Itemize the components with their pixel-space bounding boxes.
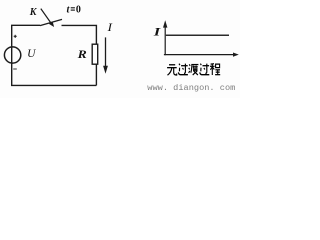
wire bottom segment [12,63,97,86]
svg-text:K: K [29,7,38,18]
graph constant current line [166,34,229,36]
caption char 过 (second) [200,64,210,75]
source - polarity mark [13,68,17,70]
svg-text:U: U [27,48,36,60]
switch K closing arrow [41,9,51,24]
graph Y axis arrowhead [163,20,167,27]
caption char 无 [167,65,177,75]
svg-text:I: I [153,26,162,39]
graph X axis arrowhead [233,53,239,57]
current arrow I head [103,66,108,74]
graph X axis [164,54,234,56]
graph Y axis [164,26,166,55]
caption char 程 [210,64,220,75]
caption char 过 [178,64,188,75]
wire top-right segment [62,25,97,44]
wire through source circle [11,47,13,63]
svg-text:R: R [77,48,87,61]
svg-text:I: I [106,21,112,34]
caption char 渡 [189,64,199,75]
wire right lower segment [95,64,97,85]
resistor R body [92,44,98,64]
svg-text:t: t [67,4,71,15]
source + polarity mark [14,35,17,37]
switch K blade [40,19,62,25]
svg-text:www. diangon. com: www. diangon. com [147,83,235,93]
current arrow I line [105,37,107,67]
wire top-left segment [12,25,40,47]
svg-text:0: 0 [76,4,81,15]
voltage source U circle [4,47,20,63]
